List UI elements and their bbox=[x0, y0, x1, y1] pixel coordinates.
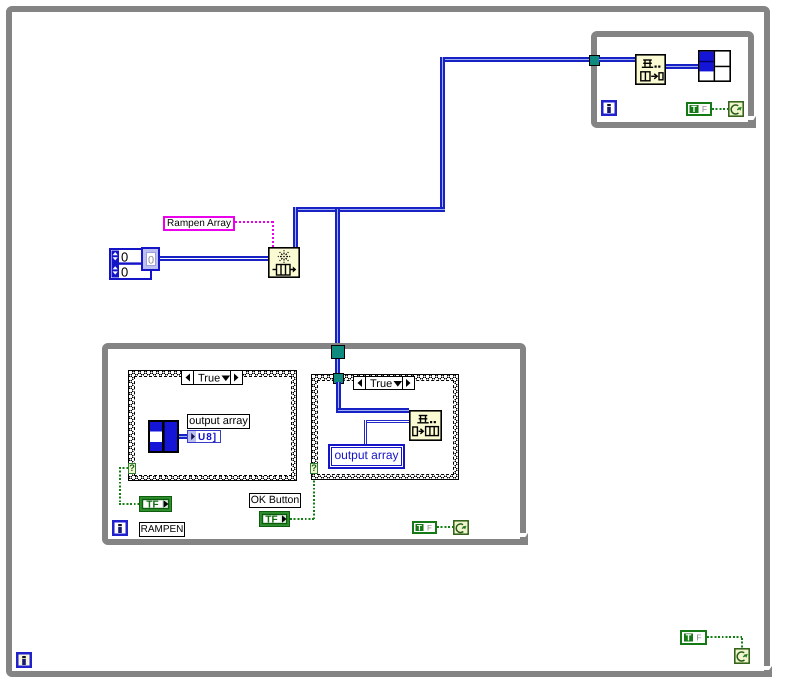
function: initialize array node bbox=[268, 247, 300, 278]
wire (dotted, TF RAMPEN to ?) bbox=[119, 467, 128, 469]
svg-text:T: T bbox=[417, 524, 422, 533]
wire (U1 to array indicator) bbox=[666, 64, 698, 69]
label output array (C1) bbox=[187, 414, 250, 429]
tunnel (C2 top border) bbox=[333, 373, 344, 384]
svg-text:0: 0 bbox=[121, 249, 128, 264]
svg-text:U8]: U8] bbox=[198, 432, 217, 443]
loop condition terminal (outer loop) bbox=[734, 648, 750, 664]
svg-text:F: F bbox=[702, 104, 707, 114]
loop condition terminal (W2) bbox=[728, 101, 744, 117]
boolean terminal TF (RAMPEN) bbox=[139, 496, 172, 512]
wire (2D array, middle horizontal) bbox=[293, 207, 445, 212]
svg-text:F: F bbox=[427, 524, 432, 533]
tunnel (W3 top border) bbox=[331, 345, 345, 359]
while loop W2 frame (top right) bbox=[591, 31, 754, 128]
array constant (index + element) bbox=[109, 247, 161, 280]
svg-text:TF: TF bbox=[265, 515, 277, 526]
svg-text:True: True bbox=[198, 373, 220, 385]
function U1 (array to cluster, W2) bbox=[635, 54, 666, 85]
boolean constant TF (W3) bbox=[412, 521, 437, 534]
wire (thin, U2 to output array local) bbox=[365, 420, 409, 423]
svg-text:0: 0 bbox=[121, 264, 128, 279]
wire (2D array, init node up) bbox=[293, 207, 298, 247]
wire (icon to U8 terminal) bbox=[179, 434, 187, 439]
terminal [U8] (C1) bbox=[187, 430, 221, 443]
label RAMPEN bbox=[139, 522, 185, 537]
case selector terminal ? (C1) bbox=[128, 463, 136, 474]
wire (tunnel to U1) bbox=[599, 57, 635, 62]
case structure C2 border bbox=[311, 374, 459, 480]
case C2 selector label bbox=[353, 376, 415, 390]
wire (2D array, branch down to W3) bbox=[335, 209, 340, 373]
boolean constant TF (outer loop, bottom right) bbox=[680, 630, 707, 645]
2D array indicator icon (W2) bbox=[698, 50, 731, 82]
loop condition terminal (W3) bbox=[453, 520, 469, 535]
case C1 selector label bbox=[181, 370, 243, 385]
boolean terminal TF (OK Button) bbox=[259, 511, 290, 527]
label Rampen Array bbox=[163, 216, 235, 231]
svg-text:TF: TF bbox=[146, 500, 158, 511]
wire (dotted, TF to loop condition, outer loop) bbox=[707, 636, 742, 638]
tunnel (W2 left border) bbox=[589, 55, 600, 66]
iteration terminal i (W3) bbox=[112, 520, 128, 536]
iteration terminal i (outer loop) bbox=[16, 652, 32, 668]
svg-text:T: T bbox=[691, 104, 697, 114]
label OK Button bbox=[249, 493, 301, 508]
wire (dotted, OK TF to C2 ?) bbox=[290, 518, 314, 520]
iteration terminal i (W2) bbox=[601, 100, 617, 116]
svg-text:T: T bbox=[686, 633, 692, 643]
outer while loop corner notch bbox=[763, 666, 771, 670]
wire (2D array, into C2) bbox=[336, 382, 341, 413]
while loop W3 corner notch bbox=[519, 533, 527, 537]
wire (2D array, vertical right trunk) bbox=[440, 57, 445, 212]
wire (dotted, TF to loop condition, W3) bbox=[437, 526, 453, 528]
while loop W2 corner notch bbox=[747, 116, 755, 120]
function U2 (element to array, C2) bbox=[409, 410, 442, 441]
svg-text:0: 0 bbox=[148, 254, 154, 266]
wire (2D array, top horizontal into W2) bbox=[443, 57, 591, 62]
wire (dotted, TF to loop condition, W2) bbox=[712, 108, 728, 110]
while loop W3 frame (bottom) bbox=[102, 343, 526, 545]
wire (magenta dashed, label to init node) bbox=[235, 221, 274, 223]
boolean constant TF (W2) bbox=[686, 102, 712, 116]
svg-text:F: F bbox=[696, 633, 701, 643]
case selector terminal ? (C2) bbox=[310, 463, 318, 474]
local variable output array (C2) bbox=[328, 444, 405, 469]
wire (array constant to init node) bbox=[160, 256, 268, 261]
case structure C1 border bbox=[128, 370, 297, 481]
svg-text:True: True bbox=[370, 378, 392, 390]
boolean array local icon (C1) bbox=[148, 420, 179, 453]
